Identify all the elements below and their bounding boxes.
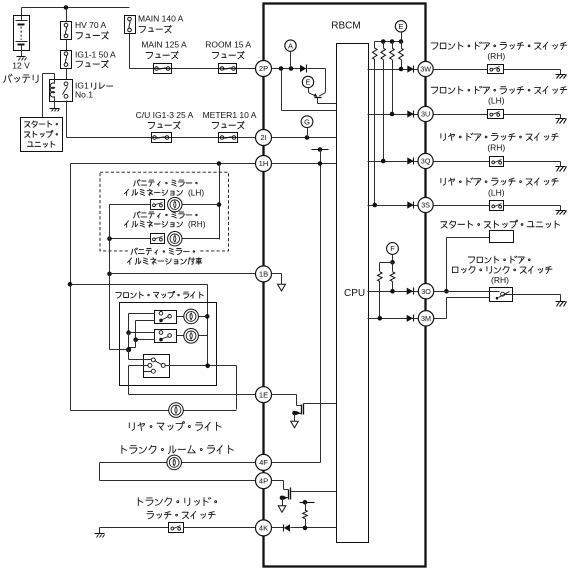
svg-text:3O: 3O xyxy=(421,287,431,296)
svg-text:1H: 1H xyxy=(259,159,269,168)
svg-text:4K: 4K xyxy=(259,524,268,533)
svg-text:CPU: CPU xyxy=(344,288,365,299)
svg-text:ROOM 15 A: ROOM 15 A xyxy=(205,40,251,50)
svg-text:3S: 3S xyxy=(421,201,430,210)
svg-text:3M: 3M xyxy=(421,314,431,323)
svg-text:A: A xyxy=(288,41,293,50)
svg-text:HV 70 A: HV 70 A xyxy=(75,20,107,30)
svg-text:(RH): (RH) xyxy=(487,142,505,152)
svg-text:1E: 1E xyxy=(259,390,268,399)
svg-text:3W: 3W xyxy=(420,65,431,74)
svg-text:(LH): (LH) xyxy=(488,187,505,197)
svg-text:F: F xyxy=(390,244,395,253)
svg-text:1B: 1B xyxy=(259,270,268,279)
svg-text:3Q: 3Q xyxy=(421,157,431,166)
svg-text:IG1-1 50 A: IG1-1 50 A xyxy=(75,49,116,59)
svg-text:No.1: No.1 xyxy=(75,90,93,100)
svg-text:(RH): (RH) xyxy=(188,219,206,229)
svg-text:4P: 4P xyxy=(259,476,268,485)
svg-text:MAIN 125 A: MAIN 125 A xyxy=(141,40,187,50)
svg-text:2I: 2I xyxy=(260,133,266,142)
svg-text:3U: 3U xyxy=(421,110,430,119)
svg-text:(LH): (LH) xyxy=(188,188,204,198)
svg-text:4F: 4F xyxy=(259,458,268,467)
svg-text:METER1 10 A: METER1 10 A xyxy=(203,110,257,120)
svg-text:12 V: 12 V xyxy=(12,61,30,71)
svg-text:(LH): (LH) xyxy=(488,96,505,106)
svg-text:E: E xyxy=(306,78,311,87)
svg-text:(RH): (RH) xyxy=(487,51,505,61)
svg-text:C/U IG1-3 25 A: C/U IG1-3 25 A xyxy=(136,110,194,120)
svg-text:RBCM: RBCM xyxy=(331,20,360,31)
svg-text:2P: 2P xyxy=(259,64,268,73)
svg-text:MAIN 140 A: MAIN 140 A xyxy=(138,13,184,23)
svg-text:(RH): (RH) xyxy=(491,275,509,285)
svg-text:E: E xyxy=(399,22,404,31)
svg-text:G: G xyxy=(304,117,310,126)
